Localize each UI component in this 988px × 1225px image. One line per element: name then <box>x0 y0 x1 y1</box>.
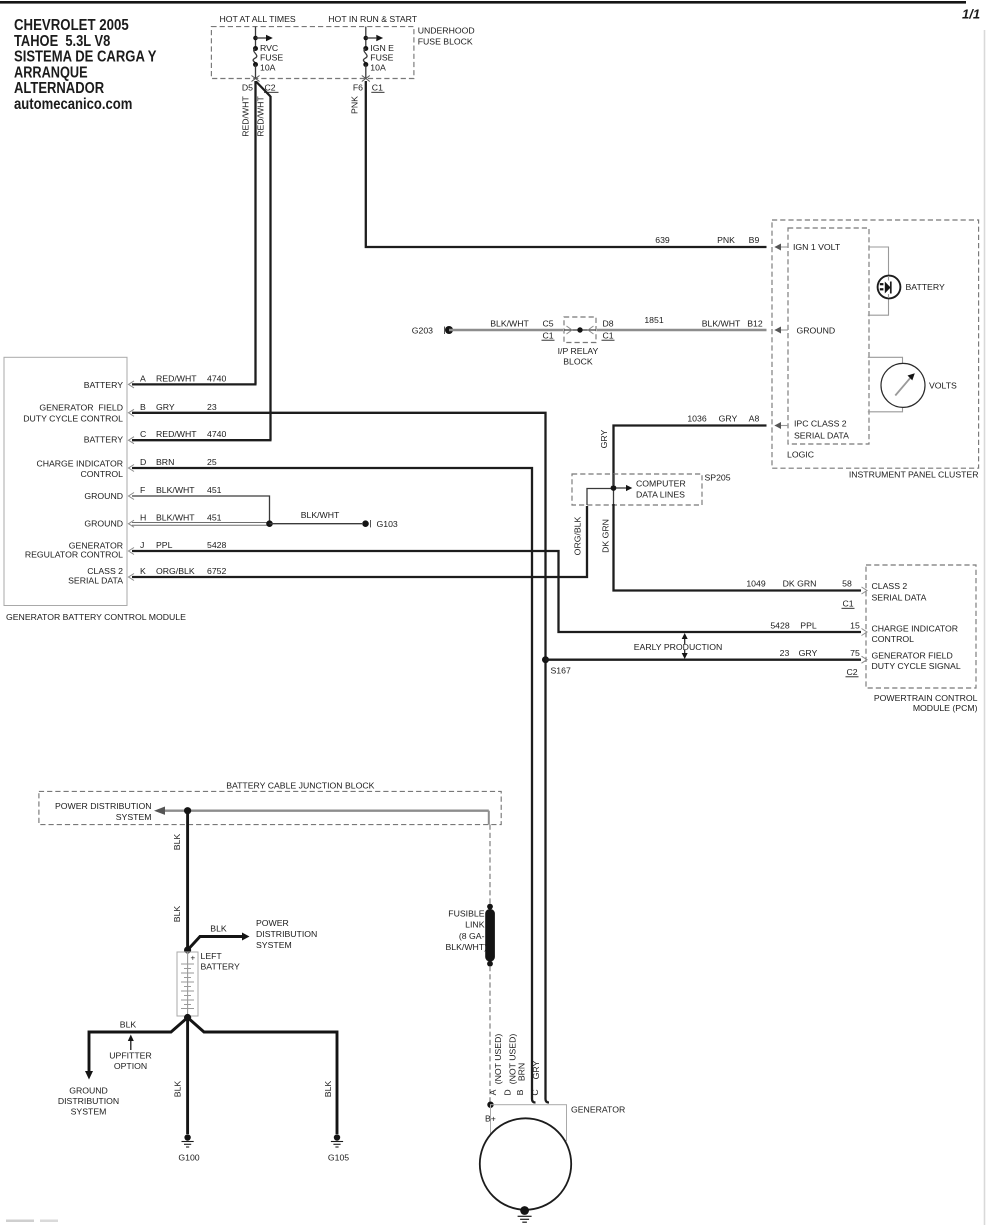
pin D labels <box>140 457 217 467</box>
svg-text:PNK: PNK <box>717 235 735 245</box>
bottom left scan artifact <box>6 1220 58 1223</box>
label 1036 GRY A8 <box>687 414 759 424</box>
connector arrow B9 into cluster <box>775 244 789 251</box>
pin B labels <box>140 402 217 412</box>
label IGN E FUSE 10A <box>370 43 394 73</box>
label IPC CLASS 2 SERIAL DATA <box>794 418 849 440</box>
svg-text:DUTY CYCLE SIGNAL: DUTY CYCLE SIGNAL <box>872 661 961 671</box>
title block <box>14 17 157 113</box>
svg-text:DISTRIBUTION: DISTRIBUTION <box>58 1096 119 1106</box>
wire 1036 GRY to cluster A8 <box>614 426 767 486</box>
label DK GRN vertical <box>601 519 611 553</box>
svg-text:UPFITTER: UPFITTER <box>109 1051 151 1061</box>
svg-text:GENERATOR: GENERATOR <box>571 1105 625 1115</box>
connector D5/C2 at fuse block <box>242 76 279 93</box>
wire F BLK/WHT 451 <box>132 496 270 522</box>
svg-text:BLK: BLK <box>210 924 227 934</box>
svg-text:C2: C2 <box>846 667 857 677</box>
svg-text:SERIAL DATA: SERIAL DATA <box>872 592 927 602</box>
svg-text:GRY: GRY <box>599 429 609 448</box>
label COMPUTER DATA LINES <box>636 478 686 499</box>
svg-text:GRY: GRY <box>156 402 175 412</box>
instrument panel cluster box <box>772 220 979 468</box>
page number 1/1 <box>962 7 980 22</box>
svg-text:GENERATOR FIELD: GENERATOR FIELD <box>39 402 123 412</box>
branch BLK battery to G105 <box>188 1018 337 1135</box>
label BRN pin B <box>517 1063 527 1081</box>
svg-text:ARRANQUE: ARRANQUE <box>14 64 88 81</box>
svg-text:BLK: BLK <box>173 1081 183 1098</box>
svg-text:+: + <box>191 954 196 963</box>
label IGN 1 VOLT <box>793 242 841 252</box>
label POWER DISTRIBUTION SYSTEM (battery branch) <box>256 918 317 950</box>
svg-text:ORG/BLK: ORG/BLK <box>156 566 195 576</box>
fuse IGN E 10A <box>363 27 383 79</box>
svg-text:FUSE: FUSE <box>260 53 283 63</box>
label GENERATOR BATTERY CONTROL MODULE <box>6 612 186 622</box>
label BLK/WHT (G203 run) <box>490 319 529 329</box>
svg-text:G103: G103 <box>377 519 398 529</box>
svg-text:RED/WHT: RED/WHT <box>256 96 266 137</box>
svg-text:BLK/WHT: BLK/WHT <box>301 510 340 520</box>
svg-text:4740: 4740 <box>207 373 226 383</box>
svg-text:75: 75 <box>850 648 860 658</box>
svg-text:LINK: LINK <box>465 920 485 930</box>
wire 1851 BLK/WHT to cluster B12 <box>597 329 767 331</box>
connector arrow B12 into cluster <box>775 327 789 334</box>
battery telltale indicator <box>878 276 901 299</box>
label FUSIBLE LINK (8 GA- BLK/WHT) <box>445 909 487 953</box>
svg-text:A: A <box>488 1089 498 1095</box>
svg-text:OPTION: OPTION <box>114 1061 147 1071</box>
svg-text:DK GRN: DK GRN <box>783 579 817 589</box>
svg-text:GROUND: GROUND <box>69 1086 108 1096</box>
svg-text:RED/WHT: RED/WHT <box>156 429 197 439</box>
wire BLK battery to G100 <box>186 1018 189 1135</box>
upfitter option arrow <box>128 1035 134 1051</box>
svg-text:RED/WHT: RED/WHT <box>156 373 197 383</box>
svg-text:15: 15 <box>850 621 860 631</box>
svg-text:FUSIBLE: FUSIBLE <box>448 909 484 919</box>
svg-text:C1: C1 <box>372 83 383 93</box>
wire K ORG/BLK 6752 (to SP205) <box>132 506 587 577</box>
svg-text:S167: S167 <box>551 666 571 676</box>
label 1049 DK GRN 58 <box>746 579 852 589</box>
svg-text:C: C <box>530 1089 540 1095</box>
generator body circle <box>480 1118 571 1209</box>
label B+ <box>485 1114 496 1124</box>
svg-text:1/1: 1/1 <box>962 7 980 22</box>
svg-text:SERIAL DATA: SERIAL DATA <box>794 430 849 440</box>
label GROUND DISTRIBUTION SYSTEM <box>58 1086 119 1117</box>
module left labels <box>23 380 123 585</box>
svg-text:BLK/WHT): BLK/WHT) <box>445 942 487 952</box>
svg-text:BLK/WHT: BLK/WHT <box>156 513 195 523</box>
connector arrow A8 into cluster <box>775 422 789 429</box>
wire J PPL 5428 (to PCM 15) <box>132 551 861 632</box>
svg-text:BATTERY: BATTERY <box>84 380 123 390</box>
label LOGIC <box>787 450 814 460</box>
volts gauge wiring <box>868 357 903 412</box>
label HOT IN RUN & START <box>328 14 418 24</box>
relay block internal wire and junction <box>564 326 596 334</box>
pin J labels <box>140 540 226 550</box>
junction block internal wire with arrow <box>154 807 489 825</box>
wire BLK/WHT G203 to relay block <box>449 329 563 331</box>
svg-text:HOT IN RUN & START: HOT IN RUN & START <box>328 14 418 24</box>
svg-text:GROUND: GROUND <box>84 491 123 501</box>
svg-text:HOT AT ALL TIMES: HOT AT ALL TIMES <box>219 14 295 24</box>
wire C RED/WHT 4740 <box>132 439 272 441</box>
label EARLY PRODUCTION <box>634 642 723 652</box>
ground G105 <box>328 1134 349 1162</box>
svg-text:F: F <box>140 485 145 495</box>
svg-text:COMPUTER: COMPUTER <box>636 478 686 488</box>
wire BLK junction block to battery <box>186 811 189 950</box>
label BATTERY CABLE JUNCTION BLOCK <box>226 781 374 791</box>
svg-text:B: B <box>515 1089 525 1095</box>
svg-text:B+: B+ <box>485 1114 496 1124</box>
pin A labels <box>140 373 226 383</box>
svg-text:C1: C1 <box>602 330 613 340</box>
svg-text:BLK/WHT: BLK/WHT <box>702 319 741 329</box>
pin F labels <box>140 485 222 495</box>
svg-text:BRN: BRN <box>517 1063 527 1081</box>
svg-text:D: D <box>140 457 146 467</box>
svg-text:CHEVROLET 2005: CHEVROLET 2005 <box>14 17 129 34</box>
svg-text:SYSTEM: SYSTEM <box>256 940 292 950</box>
svg-text:G100: G100 <box>178 1153 199 1163</box>
svg-text:CLASS 2: CLASS 2 <box>872 581 908 591</box>
svg-text:CONTROL: CONTROL <box>81 469 124 479</box>
svg-text:23: 23 <box>780 648 790 658</box>
label PNK vertical <box>350 96 360 114</box>
ground G203 <box>412 325 453 335</box>
svg-text:VOLTS: VOLTS <box>929 381 957 391</box>
svg-text:25: 25 <box>207 457 217 467</box>
svg-text:C: C <box>140 429 146 439</box>
svg-text:5428: 5428 <box>770 621 789 631</box>
svg-text:J: J <box>140 540 144 550</box>
svg-text:23: 23 <box>207 402 217 412</box>
label RVC FUSE 10A <box>260 43 283 73</box>
splice S167 <box>542 656 571 675</box>
svg-text:POWERTRAIN CONTROL: POWERTRAIN CONTROL <box>874 693 978 703</box>
svg-text:B: B <box>140 402 146 412</box>
svg-text:G203: G203 <box>412 325 433 335</box>
svg-text:B12: B12 <box>747 319 763 329</box>
generator connector box <box>491 1105 567 1141</box>
wire H BLK/WHT 451 double line <box>132 523 268 526</box>
svg-text:58: 58 <box>842 579 852 589</box>
svg-text:GRY: GRY <box>799 648 818 658</box>
svg-text:BATTERY: BATTERY <box>906 282 945 292</box>
left battery symbol <box>177 952 198 1016</box>
svg-text:IPC CLASS 2: IPC CLASS 2 <box>794 418 847 428</box>
wire RED/WHT vertical 1 (to pin A) <box>254 81 256 384</box>
svg-text:SERIAL DATA: SERIAL DATA <box>68 575 123 585</box>
svg-text:GRY: GRY <box>719 414 738 424</box>
junction dot F/H <box>266 520 273 527</box>
label BLK (G100 run) <box>173 1081 183 1098</box>
label VOLTS <box>929 381 957 391</box>
svg-text:BRN: BRN <box>156 457 174 467</box>
label UNDERHOOD FUSE BLOCK <box>418 26 475 47</box>
generator battery control module box <box>4 357 127 605</box>
label INSTRUMENT PANEL CLUSTER <box>849 470 979 480</box>
svg-text:C1: C1 <box>842 599 853 609</box>
svg-text:I/P RELAY: I/P RELAY <box>558 346 599 356</box>
branch BLK to power distribution system <box>188 933 250 951</box>
battery telltale wiring <box>868 247 889 315</box>
fusible link <box>485 904 495 967</box>
wire 1049 DK GRN to PCM 58 <box>614 504 862 591</box>
svg-text:SISTEMA DE CARGA Y: SISTEMA DE CARGA Y <box>14 49 157 66</box>
I/P relay block box <box>564 317 596 343</box>
battery bottom terminal dot <box>184 1014 191 1021</box>
svg-text:PNK: PNK <box>350 96 360 114</box>
svg-text:BLK/WHT: BLK/WHT <box>156 485 195 495</box>
pin C labels <box>140 429 226 439</box>
label UPFITTER OPTION <box>109 1051 151 1072</box>
pin K labels <box>140 566 226 576</box>
connector C1 (PCM) <box>842 599 855 609</box>
label ORG/BLK vertical <box>573 516 583 555</box>
svg-text:BATTERY CABLE JUNCTION BLOCK: BATTERY CABLE JUNCTION BLOCK <box>226 781 374 791</box>
svg-text:PPL: PPL <box>800 621 817 631</box>
label BLK (G105 run) <box>323 1081 333 1098</box>
svg-text:SYSTEM: SYSTEM <box>116 812 152 822</box>
label GENERATOR <box>571 1105 625 1115</box>
label LEFT BATTERY <box>201 951 240 972</box>
label GRY vertical <box>599 429 609 448</box>
page top border bar <box>0 1 966 4</box>
svg-text:6752: 6752 <box>207 566 226 576</box>
svg-text:D8: D8 <box>602 319 613 329</box>
svg-text:RED/WHT: RED/WHT <box>241 96 251 137</box>
pin H labels <box>140 513 222 523</box>
generator B+ terminal dot <box>487 1102 493 1108</box>
svg-text:CHARGE INDICATOR: CHARGE INDICATOR <box>872 624 959 634</box>
svg-text:LEFT: LEFT <box>201 951 223 961</box>
svg-text:H: H <box>140 513 146 523</box>
svg-text:1036: 1036 <box>687 414 706 424</box>
svg-text:451: 451 <box>207 485 222 495</box>
label RED/WHT vertical 2 <box>256 96 266 137</box>
connector C5/C1 <box>542 319 555 341</box>
early production arrows <box>682 633 688 659</box>
svg-text:BLK: BLK <box>120 1020 137 1030</box>
svg-text:10A: 10A <box>260 63 276 73</box>
svg-text:GROUND: GROUND <box>84 519 123 529</box>
wire BLK/WHT to G103 <box>270 523 363 525</box>
svg-text:FUSE BLOCK: FUSE BLOCK <box>418 37 473 47</box>
svg-text:REGULATOR CONTROL: REGULATOR CONTROL <box>25 549 123 559</box>
label HOT AT ALL TIMES <box>219 14 295 24</box>
svg-text:K: K <box>140 566 146 576</box>
wire D BRN 25 (to generator B) <box>132 468 536 1103</box>
PCM pin chevrons <box>862 587 868 663</box>
svg-text:C5: C5 <box>542 319 553 329</box>
svg-text:ALTERNADOR: ALTERNADOR <box>14 80 104 97</box>
label BLK (ground branch) <box>120 1020 137 1030</box>
svg-text:BLOCK: BLOCK <box>563 357 593 367</box>
svg-text:B9: B9 <box>749 235 760 245</box>
svg-text:ORG/BLK: ORG/BLK <box>573 516 583 555</box>
svg-text:D5: D5 <box>242 83 253 93</box>
battery top terminal dot <box>184 946 191 953</box>
generator pin letters A D B C <box>488 1089 540 1095</box>
label BLK/WHT (G103 run) <box>301 510 340 520</box>
svg-text:LOGIC: LOGIC <box>787 450 814 460</box>
svg-text:BATTERY: BATTERY <box>201 962 240 972</box>
generator ground terminal <box>518 1206 532 1222</box>
ground G103 <box>362 519 398 529</box>
svg-text:DATA LINES: DATA LINES <box>636 489 685 499</box>
svg-text:DISTRIBUTION: DISTRIBUTION <box>256 929 317 939</box>
svg-text:F6: F6 <box>353 83 363 93</box>
svg-text:CONTROL: CONTROL <box>872 634 915 644</box>
wire RED/WHT vertical 2 (to pin C) <box>269 96 271 440</box>
label POWER DISTRIBUTION SYSTEM (junction block) <box>55 801 152 822</box>
label SP205 <box>705 473 731 483</box>
label POWERTRAIN CONTROL MODULE (PCM) <box>874 693 978 713</box>
svg-text:BLK: BLK <box>172 906 182 923</box>
branch BLK battery to ground distribution <box>85 1018 188 1080</box>
svg-text:A: A <box>140 373 146 383</box>
svg-text:GENERATOR BATTERY CONTROL MODU: GENERATOR BATTERY CONTROL MODULE <box>6 612 186 622</box>
label 23 GRY 75 <box>780 648 860 658</box>
svg-text:MODULE (PCM): MODULE (PCM) <box>913 703 978 713</box>
svg-text:IGN 1 VOLT: IGN 1 VOLT <box>793 242 841 252</box>
svg-text:RVC: RVC <box>260 43 278 53</box>
label (NOT USED) pin A <box>493 1034 503 1085</box>
label BLK (branch) <box>210 924 227 934</box>
svg-text:1049: 1049 <box>746 579 765 589</box>
svg-text:SYSTEM: SYSTEM <box>71 1107 107 1117</box>
svg-text:POWER: POWER <box>256 918 289 928</box>
label RED/WHT vertical 1 <box>241 96 251 137</box>
wire 23 GRY to PCM 75 <box>546 659 862 661</box>
svg-text:BLK/WHT: BLK/WHT <box>490 319 529 329</box>
label 639 PNK B9 <box>655 235 759 245</box>
label BLK (lower) <box>172 906 182 923</box>
svg-text:G105: G105 <box>328 1153 349 1163</box>
svg-text:CHARGE INDICATOR: CHARGE INDICATOR <box>36 459 123 469</box>
underhood fuse block box <box>211 27 414 79</box>
wire (dashed) junction block to fusible link <box>489 825 491 905</box>
connector C2 (PCM) <box>846 667 859 677</box>
label (NOT USED) pin D <box>508 1034 518 1085</box>
svg-text:PPL: PPL <box>156 540 173 550</box>
svg-text:639: 639 <box>655 235 670 245</box>
label 1851 BLK/WHT B12 <box>644 315 763 329</box>
svg-text:1851: 1851 <box>644 315 663 325</box>
connector D8/C1 <box>602 319 615 341</box>
page right edge line <box>984 30 986 1225</box>
logic box <box>788 228 869 444</box>
label GROUND (cluster) <box>797 325 836 335</box>
svg-text:SP205: SP205 <box>705 473 731 483</box>
svg-text:DK GRN: DK GRN <box>601 519 611 553</box>
svg-text:10A: 10A <box>370 63 386 73</box>
PCM labels <box>872 581 961 671</box>
svg-text:TAHOE 5.3L V8: TAHOE 5.3L V8 <box>14 33 111 50</box>
svg-text:FUSE: FUSE <box>370 53 393 63</box>
label BATTERY (telltale) <box>906 282 945 292</box>
wire B GRY 23 (to S167 and generator C) <box>132 413 549 1103</box>
svg-text:A8: A8 <box>749 414 760 424</box>
ground G100 <box>178 1134 199 1162</box>
fuse RVC 10A <box>253 27 273 79</box>
volts gauge <box>881 363 925 407</box>
powertrain control module box <box>866 565 976 688</box>
svg-text:INSTRUMENT PANEL CLUSTER: INSTRUMENT PANEL CLUSTER <box>849 470 979 480</box>
svg-text:POWER DISTRIBUTION: POWER DISTRIBUTION <box>55 801 152 811</box>
svg-text:5428: 5428 <box>207 540 226 550</box>
svg-text:4740: 4740 <box>207 429 226 439</box>
svg-text:(8 GA-: (8 GA- <box>459 931 485 941</box>
label I/P RELAY BLOCK <box>558 346 599 367</box>
label 5428 PPL 15 <box>770 621 860 631</box>
wire PNK from fuse IGN E <box>366 81 767 247</box>
svg-text:C1: C1 <box>542 330 553 340</box>
svg-text:GENERATOR FIELD: GENERATOR FIELD <box>872 651 953 661</box>
svg-text:GROUND: GROUND <box>797 325 836 335</box>
battery cable junction block box <box>39 791 501 824</box>
svg-text:DUTY CYCLE CONTROL: DUTY CYCLE CONTROL <box>23 414 123 424</box>
label BLK (upper) <box>172 834 182 851</box>
svg-text:(NOT USED): (NOT USED) <box>493 1034 503 1085</box>
junction dot on battery feed <box>184 807 191 814</box>
splice internal wiring <box>587 474 632 505</box>
svg-text:EARLY PRODUCTION: EARLY PRODUCTION <box>634 642 723 652</box>
svg-text:BLK: BLK <box>172 834 182 851</box>
svg-text:automecanico.com: automecanico.com <box>14 96 132 113</box>
svg-text:BATTERY: BATTERY <box>84 435 123 445</box>
wire split diagonal <box>256 82 271 97</box>
wire (dashed) fusible link to generator B+ <box>489 966 491 1102</box>
svg-text:UNDERHOOD: UNDERHOOD <box>418 26 475 36</box>
svg-text:451: 451 <box>207 513 222 523</box>
svg-text:IGN E: IGN E <box>370 43 394 53</box>
connector F6/C1 at fuse block <box>353 76 385 93</box>
svg-text:D: D <box>503 1089 513 1095</box>
module pin chevrons <box>129 381 135 581</box>
splice SP205 box <box>572 474 702 505</box>
label GRY pin C <box>531 1060 541 1079</box>
wire A RED/WHT 4740 <box>132 383 257 385</box>
svg-text:BLK: BLK <box>323 1081 333 1098</box>
svg-text:GRY: GRY <box>531 1060 541 1079</box>
